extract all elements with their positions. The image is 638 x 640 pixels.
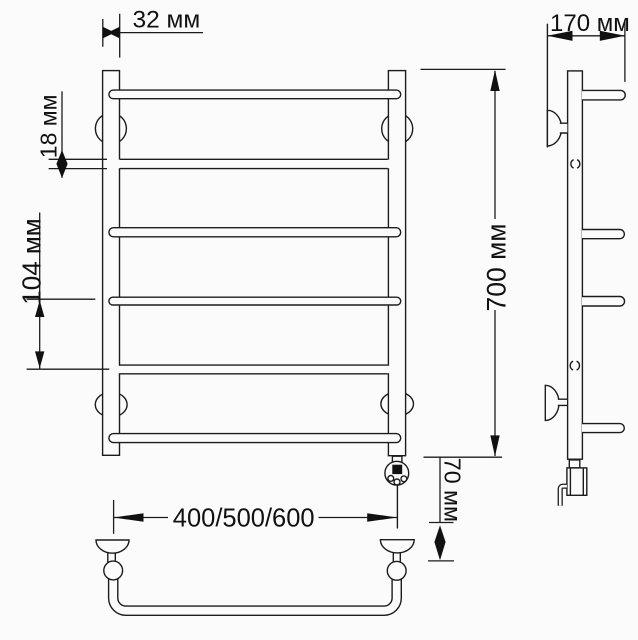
bar 3 round [109,228,401,237]
heating element neck [392,456,402,463]
svg-text:700 мм: 700 мм [481,223,511,311]
dim 104mm arrow down [35,351,44,368]
dim 700mm top ref line [421,68,506,70]
heating element pin 1 [388,476,394,482]
dim 170mm right arrow [600,31,625,41]
dim 18mm vertical line [61,91,63,178]
side view element box [567,468,587,495]
heating element plug block [392,465,402,474]
svg-text:18 мм: 18 мм [36,95,62,159]
svg-text:104 мм: 104 мм [17,218,47,304]
front view mounting bracket top-left [95,113,126,144]
side view bar 1 [582,90,625,100]
dim 104mm arrow up [35,300,44,317]
dim 32mm extension lines [103,14,120,58]
dim 700mm bottom ref line [424,456,503,458]
dim 170mm line [547,35,625,37]
dim 104mm vertical line [39,213,41,369]
side view bar 4 [582,297,625,307]
side view element sleeve neck [569,460,580,468]
dim 18mm ref lines [49,159,107,168]
svg-text:32 мм: 32 мм [133,7,201,34]
side view bar 3 [582,230,624,239]
heating element body [385,461,409,485]
front right post [388,71,405,456]
heating element wire [396,485,398,528]
side view bar 6 [582,424,624,433]
side view bracket neck bottom [558,399,568,405]
bottom view ball right [387,561,406,580]
dim 70mm ref lines [428,523,454,561]
bottom view dome right [380,540,414,553]
side view post [568,71,583,459]
dim 70mm vertical line [439,458,441,523]
dim 170mm left arrow [547,31,572,41]
front view mounting bracket bottom-right [381,392,414,416]
dim 400/500/600 left tick [113,500,115,534]
dim 170mm right extension line [624,20,626,82]
bar 2 flat edges [120,159,388,168]
side view bracket neck top [560,123,568,133]
dim 700mm line [494,71,496,456]
bottom view neck left [108,551,116,563]
heating element pin 2 [394,479,400,485]
dim 400/500/600 right arrow [367,513,397,522]
bottom view dome left [96,540,129,553]
svg-text:170 мм: 170 мм [550,10,630,37]
side view cable [560,486,567,506]
front view mounting bracket bottom-left [95,392,127,417]
bar 5 flat edges [120,365,388,374]
dim 32mm arrows bowtie [103,27,120,39]
dim 400/500/600 line [114,517,398,519]
front view mounting bracket top-right [382,113,413,144]
heating element pin 3 [401,476,407,482]
dim 70mm diamond arrow [434,525,445,560]
side view element box inner lines [570,468,583,495]
front left post [103,71,120,456]
side view wall line / 170mm left extension [546,24,548,148]
side view wall bracket dome top [547,110,561,146]
dim 18mm diamond arrow [56,150,67,178]
dim 32mm line [120,32,203,34]
bar 2 flat (fill gap over posts) [118,160,390,169]
side view hole top [571,160,580,168]
dim 400/500/600 left arrow [114,513,144,522]
side view hole bottom [570,361,579,370]
bottom view ball left [104,561,123,580]
dim 700mm arrow up [490,70,499,91]
bottom view tube [113,571,397,611]
bar 4 round [109,297,401,305]
svg-text:400/500/600: 400/500/600 [173,505,315,533]
dim 104mm ref lines [27,299,110,369]
dim 700mm arrow down [490,435,499,456]
bar 1 round [109,90,401,99]
bottom view neck right [393,551,400,563]
bar 6 round [109,434,401,443]
svg-text:70 мм: 70 мм [439,458,465,522]
bar 5 flat (fill gap over posts) [118,366,390,373]
side view bracket dome bottom [545,385,559,420]
